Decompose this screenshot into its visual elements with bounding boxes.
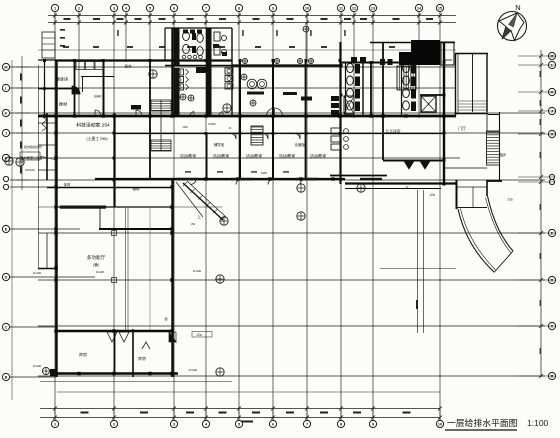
svg-text:5: 5 <box>238 422 240 426</box>
svg-text:D: D <box>5 275 8 279</box>
svg-text:更衣: 更衣 <box>124 64 132 69</box>
svg-text:上: 上 <box>197 214 201 219</box>
svg-text:仪器室: 仪器室 <box>295 142 306 147</box>
svg-text:1: 1 <box>54 422 56 426</box>
svg-text:接市政给水管: 接市政给水管 <box>24 144 42 149</box>
svg-text:活动教室: 活动教室 <box>246 153 263 160</box>
svg-text:Dn100: Dn100 <box>33 364 42 368</box>
svg-text:J1W: J1W <box>182 125 188 129</box>
svg-text:JW: JW <box>191 222 196 226</box>
svg-text:1:100: 1:100 <box>527 418 549 428</box>
svg-text:J2a: J2a <box>429 193 435 197</box>
svg-text:J: J <box>551 109 553 113</box>
svg-text:2400: 2400 <box>261 171 268 175</box>
svg-text:2: 2 <box>113 422 115 426</box>
svg-text:11: 11 <box>339 6 343 10</box>
svg-text:(土建工 258): (土建工 258) <box>86 136 108 141</box>
svg-text:科技活动室 254: 科技活动室 254 <box>76 122 110 129</box>
svg-text:Dn100: Dn100 <box>193 269 202 273</box>
svg-text:M: M <box>550 54 553 58</box>
svg-text:踏步: 踏步 <box>500 152 506 157</box>
svg-text:M: M <box>4 65 7 69</box>
svg-text:B: B <box>551 374 554 378</box>
svg-text:N: N <box>515 3 520 12</box>
svg-text:15: 15 <box>438 6 442 10</box>
svg-text:台: 台 <box>164 316 168 321</box>
svg-text:J7: J7 <box>405 185 409 189</box>
svg-text:DN50: DN50 <box>208 122 216 126</box>
svg-text:8: 8 <box>238 6 240 10</box>
svg-text:体育: 体育 <box>64 182 71 187</box>
svg-text:J2a: J2a <box>196 333 201 337</box>
svg-text:Dn100: Dn100 <box>33 271 42 275</box>
svg-text:(兼): (兼) <box>93 262 99 267</box>
svg-text:9: 9 <box>372 422 374 426</box>
svg-text:B: B <box>5 375 8 379</box>
svg-text:乒乓球室: 乒乓球室 <box>385 129 400 134</box>
svg-text:C: C <box>551 324 554 328</box>
svg-text:D: D <box>551 278 554 282</box>
svg-text:13: 13 <box>371 6 375 10</box>
svg-text:2: 2 <box>78 6 80 10</box>
svg-text:3: 3 <box>113 6 115 10</box>
svg-text:活动教室: 活动教室 <box>310 153 327 160</box>
svg-text:E: E <box>5 227 8 231</box>
svg-text:器材: 器材 <box>59 101 67 108</box>
svg-text:6: 6 <box>272 422 274 426</box>
svg-text:J2a: J2a <box>507 198 512 202</box>
svg-text:7: 7 <box>306 422 308 426</box>
svg-text:J1: J1 <box>229 126 232 130</box>
svg-text:门厅: 门厅 <box>458 126 466 131</box>
svg-text:活动教室: 活动教室 <box>213 153 230 160</box>
svg-text:6: 6 <box>173 6 175 10</box>
svg-text:H: H <box>551 132 554 136</box>
svg-text:活动教室: 活动教室 <box>180 153 197 160</box>
svg-text:库房: 库房 <box>138 355 146 361</box>
svg-text:器械: 器械 <box>133 186 140 191</box>
svg-text:C: C <box>5 325 8 329</box>
svg-text:健身房: 健身房 <box>56 76 69 83</box>
svg-text:1: 1 <box>54 6 56 10</box>
svg-text:10: 10 <box>305 6 309 10</box>
svg-text:活动教室: 活动教室 <box>279 153 296 160</box>
svg-text:10: 10 <box>438 422 442 426</box>
svg-text:K: K <box>5 111 8 115</box>
svg-text:给水管道从此接入: 给水管道从此接入 <box>20 155 46 160</box>
svg-text:一层给排水平面图: 一层给排水平面图 <box>447 417 518 428</box>
svg-text:Dn100: Dn100 <box>189 368 198 372</box>
svg-text:库房: 库房 <box>79 351 87 357</box>
svg-text:9: 9 <box>272 6 274 10</box>
svg-text:BAK: BAK <box>94 95 102 99</box>
svg-text:Dn100: Dn100 <box>96 270 105 274</box>
svg-text:12: 12 <box>352 6 356 10</box>
svg-text:7: 7 <box>205 6 207 10</box>
svg-text:DN100: DN100 <box>25 168 35 172</box>
svg-text:辅导室: 辅导室 <box>214 142 225 147</box>
svg-text:J: J <box>5 131 7 135</box>
svg-text:5: 5 <box>149 6 151 10</box>
svg-text:K: K <box>551 90 554 94</box>
svg-text:E: E <box>551 231 554 235</box>
svg-text:3: 3 <box>173 422 175 426</box>
svg-text:多功能厅: 多功能厅 <box>87 254 106 261</box>
svg-text:8: 8 <box>340 422 342 426</box>
